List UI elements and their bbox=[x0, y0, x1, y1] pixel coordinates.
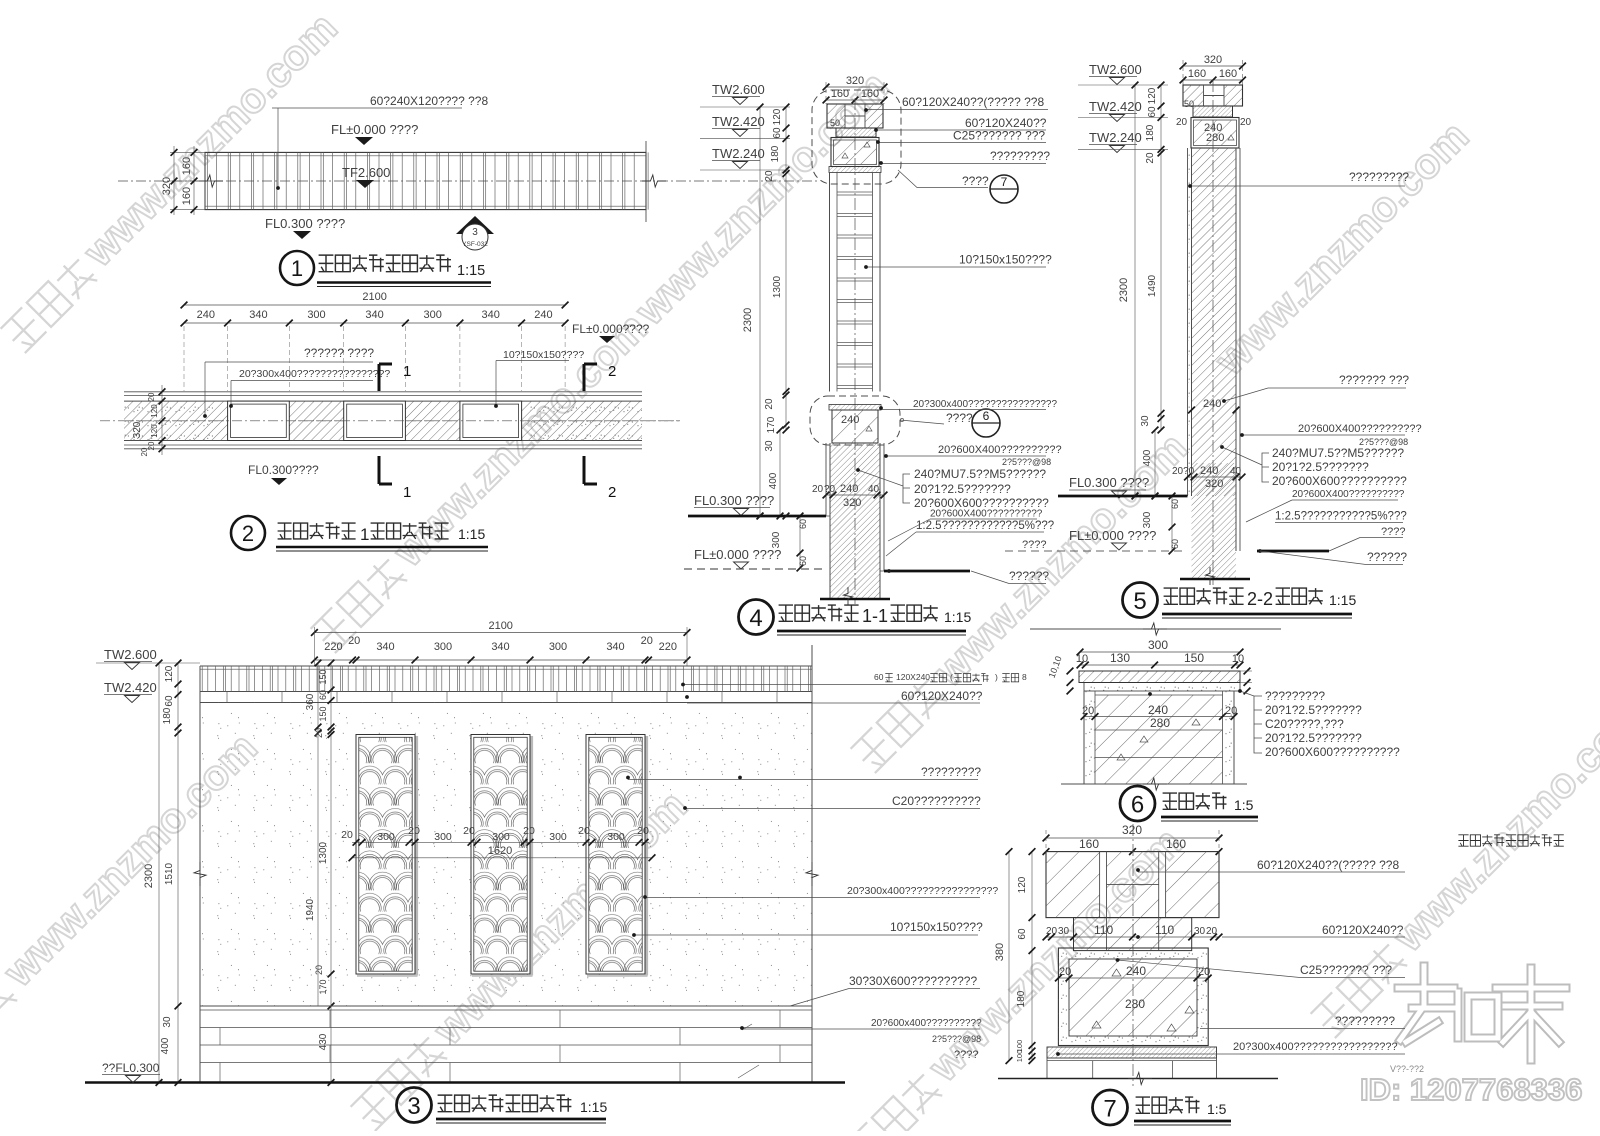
svg-text:20?600X600??????????: 20?600X600?????????? bbox=[1265, 745, 1400, 759]
ground line bbox=[85, 1081, 845, 1084]
svg-text:????: ???? bbox=[1381, 526, 1405, 538]
view 7: footing detail 1:5 bbox=[994, 823, 1424, 1125]
svg-text:300: 300 bbox=[434, 641, 452, 653]
svg-text:30?30X600??????????: 30?30X600?????????? bbox=[849, 974, 977, 988]
svg-text:1: 1 bbox=[403, 363, 411, 380]
C25 footing block bbox=[1058, 948, 1208, 1046]
svg-text:20?1?2.5???????: 20?1?2.5??????? bbox=[1272, 460, 1369, 474]
svg-text:160: 160 bbox=[181, 187, 193, 205]
svg-text:320: 320 bbox=[132, 421, 143, 438]
svg-text:240: 240 bbox=[840, 483, 858, 495]
svg-text:2300: 2300 bbox=[1118, 278, 1130, 302]
svg-text:(: ( bbox=[950, 672, 953, 682]
svg-text:300: 300 bbox=[377, 831, 395, 843]
svg-text:2-2: 2-2 bbox=[1247, 589, 1273, 609]
svg-text:20: 20 bbox=[463, 825, 475, 837]
svg-text:FL±0.000 ????: FL±0.000 ???? bbox=[1069, 528, 1156, 543]
svg-text:1:15: 1:15 bbox=[580, 1099, 607, 1115]
svg-text:FL±0.000????: FL±0.000???? bbox=[572, 322, 650, 336]
left dim column 380 and 120/60/180/100 bbox=[1008, 852, 1010, 1061]
svg-text:ID: 1207768336: ID: 1207768336 bbox=[1360, 1072, 1582, 1107]
svg-text:1:15: 1:15 bbox=[458, 526, 485, 542]
svg-text:10: 10 bbox=[1232, 653, 1244, 665]
title 7 text bbox=[1136, 1097, 1150, 1113]
svg-text:20?300x400?????????????????: 20?300x400????????????????? bbox=[1233, 1041, 1398, 1053]
svg-text:20?600X400??????????: 20?600X400?????????? bbox=[930, 509, 1043, 520]
svg-text:????: ???? bbox=[1022, 539, 1046, 551]
svg-text:1:15: 1:15 bbox=[944, 609, 971, 625]
svg-text:FL0.300 ????: FL0.300 ???? bbox=[265, 216, 345, 231]
svg-text:TW2.600: TW2.600 bbox=[712, 82, 765, 97]
svg-text:1:2.5???????????5%???: 1:2.5???????????5%??? bbox=[1275, 511, 1407, 523]
foundation bottom edge bbox=[820, 598, 890, 600]
svg-text:C25??????? ???: C25??????? ??? bbox=[1300, 963, 1392, 977]
cap stone block bbox=[827, 104, 883, 128]
wall plan band outline bbox=[205, 152, 646, 209]
cap stone block bbox=[1183, 85, 1243, 106]
vertical dim column 2300 bbox=[759, 107, 761, 516]
svg-text:1300: 1300 bbox=[318, 841, 329, 864]
break symbol right bbox=[642, 175, 666, 187]
coping slab hatched bbox=[1079, 671, 1240, 683]
lattice box openings bbox=[228, 401, 290, 440]
view 5: section 2-2 bbox=[1058, 54, 1422, 618]
svg-text:1490: 1490 bbox=[1147, 274, 1158, 297]
bottom reference line bbox=[1061, 783, 1247, 785]
panel dim row 20/300/20 and 300 gaps bbox=[352, 841, 649, 843]
render strips both sides bbox=[1187, 148, 1189, 496]
svg-text:V??-??2: V??-??2 bbox=[1390, 1064, 1424, 1074]
svg-text:240?MU7.5??M5??????: 240?MU7.5??M5?????? bbox=[914, 467, 1046, 481]
svg-text:8: 8 bbox=[1022, 672, 1027, 682]
callout 7 leader bbox=[898, 170, 988, 188]
detail callout boundary top (dashed) bbox=[812, 90, 901, 184]
lower dim segments bbox=[785, 392, 787, 431]
dim 160 160 over cap bbox=[826, 99, 884, 101]
svg-text:20: 20 bbox=[314, 965, 324, 975]
svg-text:20?300x400????????????????: 20?300x400???????????????? bbox=[239, 368, 390, 380]
svg-text:280: 280 bbox=[1125, 997, 1145, 1011]
svg-text:): ) bbox=[995, 672, 998, 682]
note right: detail sheet name bbox=[1458, 835, 1468, 846]
base slab hatched bbox=[1047, 1047, 1217, 1058]
title 6 bubble bbox=[1120, 786, 1155, 821]
svg-text:20?1?2.5???????: 20?1?2.5??????? bbox=[1265, 703, 1362, 717]
view 3: elevation bbox=[85, 620, 1027, 1123]
svg-text:2300: 2300 bbox=[143, 864, 155, 888]
svg-text:?????????: ????????? bbox=[1335, 1014, 1395, 1028]
title 6 text bbox=[1163, 793, 1177, 809]
vertical dim 2300 column bbox=[1134, 85, 1136, 496]
vertical dim segments column bbox=[1160, 85, 1162, 420]
svg-text:150: 150 bbox=[318, 669, 328, 684]
brick on edge course bbox=[1193, 106, 1233, 117]
svg-text:220: 220 bbox=[659, 641, 677, 653]
title 2 bubble bbox=[231, 516, 265, 550]
svg-text:280: 280 bbox=[1150, 716, 1170, 730]
svg-text:20?300x400????????????????: 20?300x400???????????????? bbox=[847, 885, 998, 897]
svg-text:20?600X400??????????: 20?600X400?????????? bbox=[1298, 423, 1422, 435]
scallop lattice panels bbox=[356, 735, 415, 975]
svg-text:??????: ?????? bbox=[1367, 550, 1407, 564]
column centreline bbox=[854, 98, 856, 604]
svg-text:TW2.420: TW2.420 bbox=[1089, 99, 1142, 114]
left small dims of plan band bbox=[161, 385, 163, 455]
svg-text:30: 30 bbox=[764, 440, 775, 452]
svg-text:2?5???@98: 2?5???@98 bbox=[932, 1034, 981, 1044]
svg-text:180: 180 bbox=[1145, 124, 1156, 141]
svg-text:1: 1 bbox=[403, 484, 411, 501]
svg-text:60: 60 bbox=[798, 519, 808, 529]
watermark logo bottom right bbox=[1398, 966, 1458, 1042]
brick on edge course bbox=[836, 128, 876, 137]
svg-text:20?600X400??????????: 20?600X400?????????? bbox=[938, 444, 1062, 456]
svg-text:60: 60 bbox=[1017, 928, 1028, 940]
svg-text:60?240X120???? ??8: 60?240X120???? ??8 bbox=[370, 94, 488, 108]
svg-text:60: 60 bbox=[1170, 499, 1180, 509]
svg-text:TW2.240: TW2.240 bbox=[1089, 130, 1142, 145]
svg-text:1: 1 bbox=[291, 256, 303, 281]
svg-text:160: 160 bbox=[1219, 68, 1237, 80]
foundation bottom edge bbox=[1180, 578, 1250, 580]
svg-text:20: 20 bbox=[314, 728, 324, 738]
svg-text:120: 120 bbox=[1147, 87, 1158, 104]
svg-text:340: 340 bbox=[606, 641, 624, 653]
svg-text:1940: 1940 bbox=[305, 898, 316, 921]
svg-text:60?120X240??(????? ??8: 60?120X240??(????? ??8 bbox=[1257, 858, 1399, 872]
ground line bbox=[998, 1078, 1278, 1080]
svg-text:160: 160 bbox=[1166, 837, 1186, 851]
svg-text:2300: 2300 bbox=[742, 308, 754, 332]
dim chain 220/20/340/300/340/300/340/20/220 bbox=[314, 659, 687, 661]
section marker 3 YSF-032 bbox=[456, 216, 494, 234]
svg-text:2: 2 bbox=[608, 363, 616, 380]
svg-text:60?120X240??: 60?120X240?? bbox=[901, 689, 983, 703]
svg-text:2100: 2100 bbox=[488, 620, 512, 632]
svg-text:TW2.420: TW2.420 bbox=[712, 114, 765, 129]
pavement heavy line right FL+-0.000 bbox=[1257, 550, 1329, 553]
dim 1620 line bbox=[352, 857, 652, 859]
brick band top course (vertical bricks) bbox=[200, 665, 812, 667]
svg-text:C25??????? ???: C25??????? ??? bbox=[953, 129, 1045, 143]
mortar bed under coping bbox=[1084, 683, 1240, 692]
svg-text:170: 170 bbox=[766, 416, 777, 433]
svg-text:110: 110 bbox=[1094, 923, 1113, 937]
svg-text:20?0: 20?0 bbox=[1172, 466, 1195, 477]
svg-text:?????????: ????????? bbox=[990, 149, 1050, 163]
plan band outer lines bbox=[124, 391, 642, 393]
mortar bed above brick block bbox=[829, 405, 881, 411]
extension dashed lines to plan band bbox=[183, 326, 185, 391]
svg-text:400: 400 bbox=[1142, 449, 1153, 466]
svg-text:30: 30 bbox=[1140, 415, 1151, 427]
title 5 bubble bbox=[1123, 583, 1158, 618]
svg-text:60: 60 bbox=[164, 695, 175, 707]
240 brick block bbox=[832, 410, 878, 443]
svg-text:240: 240 bbox=[1148, 703, 1168, 717]
svg-text:1: 1 bbox=[360, 525, 369, 544]
svg-text:??FL0.300: ??FL0.300 bbox=[102, 1061, 160, 1075]
pavement line right at FL+-0.000 bbox=[884, 570, 970, 573]
svg-text:180: 180 bbox=[1016, 990, 1027, 1007]
svg-text:240: 240 bbox=[1126, 964, 1146, 978]
foundation side render strips bbox=[825, 443, 827, 516]
svg-text:30: 30 bbox=[1194, 926, 1206, 937]
svg-text:6: 6 bbox=[1131, 792, 1144, 819]
svg-text:240: 240 bbox=[1203, 398, 1221, 410]
svg-text:1:15: 1:15 bbox=[457, 263, 485, 279]
svg-text:3: 3 bbox=[407, 1093, 420, 1120]
svg-text:2?5???@98: 2?5???@98 bbox=[1002, 457, 1051, 467]
svg-text:300: 300 bbox=[549, 831, 567, 843]
dim 160 160 bbox=[1183, 79, 1243, 81]
svg-text:10: 10 bbox=[1076, 653, 1088, 665]
section cut mark 2 top bbox=[584, 364, 597, 391]
svg-text:320: 320 bbox=[161, 177, 173, 195]
svg-text:5: 5 bbox=[1133, 588, 1146, 615]
svg-text:?????????: ????????? bbox=[921, 765, 981, 779]
svg-text:300: 300 bbox=[607, 831, 625, 843]
steel lattice column rails bbox=[829, 173, 831, 392]
svg-text:FL±0.000 ????: FL±0.000 ???? bbox=[694, 547, 781, 562]
title 2 text bbox=[278, 523, 292, 539]
svg-text:FL0.300????: FL0.300???? bbox=[248, 463, 319, 477]
svg-text:180: 180 bbox=[770, 145, 781, 162]
svg-text:20?300x400????????????????: 20?300x400???????????????? bbox=[913, 399, 1057, 410]
svg-text:300: 300 bbox=[1148, 638, 1168, 652]
svg-text:20?1?2.5???????: 20?1?2.5??????? bbox=[914, 482, 1011, 496]
svg-text:160: 160 bbox=[1188, 68, 1206, 80]
dimension 320/160/160 left of plan bbox=[170, 151, 205, 153]
view 1: wall plan strip bbox=[118, 94, 818, 287]
svg-text:320: 320 bbox=[846, 75, 864, 87]
C25 capping beam bbox=[831, 138, 879, 167]
base blocks below slab bbox=[1046, 1058, 1048, 1079]
svg-text:180: 180 bbox=[162, 707, 173, 724]
svg-text:10?150x150????: 10?150x150???? bbox=[959, 253, 1052, 267]
title 3 text bbox=[438, 1095, 453, 1112]
svg-text:340: 340 bbox=[365, 309, 383, 321]
foundation wall hatched bbox=[830, 443, 880, 599]
svg-text:10?150x150????: 10?150x150???? bbox=[890, 920, 983, 934]
svg-text:20: 20 bbox=[812, 484, 824, 495]
svg-text:20: 20 bbox=[637, 825, 649, 837]
svg-text:120: 120 bbox=[150, 424, 159, 438]
svg-text:430: 430 bbox=[318, 1033, 329, 1050]
svg-text:1300: 1300 bbox=[772, 275, 783, 298]
svg-text:2: 2 bbox=[608, 484, 616, 501]
svg-text:60: 60 bbox=[874, 672, 884, 682]
svg-text:1510: 1510 bbox=[164, 862, 175, 885]
svg-text:110: 110 bbox=[1155, 923, 1174, 937]
dim chain 2100 overall top bbox=[314, 632, 687, 634]
svg-text:20: 20 bbox=[140, 447, 149, 456]
svg-text:300: 300 bbox=[771, 531, 782, 548]
svg-text:20?600x400??????????: 20?600x400?????????? bbox=[871, 1018, 982, 1029]
brick band second course bbox=[200, 702, 812, 704]
svg-text:300: 300 bbox=[307, 309, 325, 321]
callout 6 leader bbox=[900, 420, 944, 424]
base stone bands bbox=[200, 1005, 812, 1007]
svg-text:20: 20 bbox=[764, 170, 775, 182]
svg-text:??????? ???: ??????? ??? bbox=[1339, 373, 1409, 387]
svg-text:1:5: 1:5 bbox=[1207, 1101, 1227, 1117]
svg-text:2100: 2100 bbox=[362, 291, 386, 303]
svg-text:2: 2 bbox=[242, 521, 254, 546]
svg-text:4: 4 bbox=[749, 605, 762, 632]
svg-text:20: 20 bbox=[578, 825, 590, 837]
svg-text:150: 150 bbox=[1184, 651, 1204, 665]
svg-text:60: 60 bbox=[1147, 106, 1158, 118]
dim chain 240/340/300/340/300/340/240 bbox=[184, 322, 565, 324]
wall top reference line bbox=[1030, 628, 1281, 630]
svg-text:YSF-032: YSF-032 bbox=[462, 241, 488, 248]
foundation below FL0.300 bbox=[1192, 463, 1237, 579]
svg-text:40: 40 bbox=[1230, 466, 1242, 477]
svg-text:240: 240 bbox=[534, 309, 552, 321]
title 7 bubble bbox=[1093, 1090, 1128, 1125]
plan band brick joints bbox=[205, 152, 648, 209]
svg-text:20: 20 bbox=[147, 392, 156, 401]
svg-text:??????: ?????? bbox=[1009, 569, 1049, 583]
svg-text:1620: 1620 bbox=[488, 845, 512, 857]
centreline bbox=[1132, 824, 1134, 1086]
svg-text:300: 300 bbox=[424, 309, 442, 321]
svg-text:300: 300 bbox=[1142, 511, 1153, 528]
svg-text:240: 240 bbox=[1200, 465, 1218, 477]
plan band inner edge lines bbox=[205, 155, 646, 157]
svg-text:3: 3 bbox=[472, 227, 478, 238]
section cut mark 1 top bbox=[379, 364, 392, 391]
svg-text:120: 120 bbox=[772, 108, 783, 125]
wall block below bbox=[1083, 691, 1085, 784]
svg-text:380: 380 bbox=[994, 943, 1006, 961]
section cut mark 2 bottom bbox=[584, 456, 597, 484]
svg-text:1-1: 1-1 bbox=[862, 606, 888, 626]
svg-text:TW2.420: TW2.420 bbox=[104, 680, 157, 695]
view 6: coping detail 1:5 bbox=[1030, 623, 1400, 821]
svg-text:????: ???? bbox=[954, 1049, 978, 1061]
svg-text:30: 30 bbox=[162, 1016, 173, 1028]
svg-text:30: 30 bbox=[1058, 926, 1070, 937]
title 4 text bbox=[779, 605, 793, 621]
svg-text:20: 20 bbox=[408, 825, 420, 837]
svg-text:160: 160 bbox=[181, 157, 193, 175]
svg-text:20: 20 bbox=[348, 635, 360, 647]
svg-text:20: 20 bbox=[641, 635, 653, 647]
svg-text:400: 400 bbox=[768, 472, 779, 489]
stucco wall face stippled bbox=[200, 703, 812, 1007]
pavement heavy line FL0.300 bbox=[1058, 495, 1188, 498]
svg-text:20?1?2.5???????: 20?1?2.5??????? bbox=[1265, 731, 1362, 745]
svg-text:10?150x150????: 10?150x150???? bbox=[503, 349, 584, 361]
C25 capping beam bbox=[1191, 118, 1239, 149]
svg-text:TW2.240: TW2.240 bbox=[712, 146, 765, 161]
svg-text:FL0.300 ????: FL0.300 ???? bbox=[1069, 475, 1149, 490]
svg-text:C20??????????: C20?????????? bbox=[892, 794, 981, 808]
watermark diagonal chains bbox=[0, 4, 346, 356]
svg-text:20: 20 bbox=[1082, 705, 1094, 717]
callout 6 bubble bbox=[972, 409, 1000, 437]
svg-text:????: ???? bbox=[946, 411, 973, 425]
svg-text:300: 300 bbox=[492, 831, 510, 843]
svg-text:1:15: 1:15 bbox=[1329, 592, 1356, 608]
svg-text:20: 20 bbox=[341, 829, 353, 841]
svg-text:FL0.300 ????: FL0.300 ???? bbox=[694, 493, 774, 508]
plan band centreline over boxes bbox=[124, 420, 680, 422]
svg-text:20: 20 bbox=[1145, 152, 1156, 164]
svg-text:1:5: 1:5 bbox=[1234, 797, 1254, 813]
svg-text:300: 300 bbox=[434, 831, 452, 843]
brick wall shaft hatched bbox=[1192, 148, 1237, 496]
svg-text:300: 300 bbox=[549, 641, 567, 653]
callout 7 bubble bbox=[990, 175, 1018, 203]
svg-text:7: 7 bbox=[1001, 175, 1008, 189]
brick on edge course 60 bbox=[1074, 918, 1192, 951]
plan band hatched wall segments bbox=[124, 401, 228, 440]
lower dim segments bbox=[1160, 413, 1162, 430]
svg-text:?????????: ????????? bbox=[1265, 689, 1325, 703]
svg-text:C20?????,???: C20?????,??? bbox=[1265, 717, 1344, 731]
svg-text:120X240: 120X240 bbox=[896, 672, 930, 682]
svg-text:?????? ????: ?????? ???? bbox=[304, 346, 374, 360]
svg-text:20: 20 bbox=[523, 825, 535, 837]
svg-text:7: 7 bbox=[1103, 1096, 1116, 1123]
svg-text:1:2.5????????????5%???: 1:2.5????????????5%??? bbox=[916, 520, 1054, 532]
bracket for wall build-up labels bbox=[903, 474, 910, 503]
svg-text:60: 60 bbox=[798, 556, 808, 566]
svg-text:340: 340 bbox=[249, 309, 267, 321]
bracket build-up labels bbox=[1262, 453, 1269, 482]
svg-text:60: 60 bbox=[772, 127, 783, 139]
detail callout boundary bottom (dashed) bbox=[810, 396, 900, 445]
svg-text:130: 130 bbox=[1110, 651, 1130, 665]
wall left and right edges bbox=[199, 666, 201, 1083]
svg-text:240?MU7.5??M5??????: 240?MU7.5??M5?????? bbox=[1272, 446, 1404, 460]
left dim columns bbox=[158, 663, 160, 1083]
wall centreline bbox=[1212, 80, 1214, 585]
dim 320 over cap bbox=[1183, 65, 1243, 67]
mortar bed 20 bbox=[829, 167, 881, 173]
svg-text:60: 60 bbox=[1170, 539, 1180, 549]
svg-text:6: 6 bbox=[983, 409, 990, 423]
svg-text:50: 50 bbox=[830, 118, 840, 128]
svg-text:170: 170 bbox=[318, 979, 328, 994]
svg-text:20?600X600??????????: 20?600X600?????????? bbox=[1272, 474, 1407, 488]
svg-text:120: 120 bbox=[150, 404, 159, 418]
concrete speckle overlay ends bbox=[124, 401, 216, 440]
svg-text:320: 320 bbox=[843, 497, 861, 509]
svg-text:60?120X240??(????? ??8: 60?120X240??(????? ??8 bbox=[902, 95, 1044, 109]
section cut mark 1 bottom bbox=[379, 456, 392, 484]
dim 320 and 160/160 bbox=[1046, 837, 1219, 839]
svg-text:360: 360 bbox=[305, 693, 316, 710]
title 1 bubble bbox=[280, 251, 314, 285]
svg-text:120: 120 bbox=[164, 665, 175, 682]
svg-text:60?120X240??: 60?120X240?? bbox=[1322, 923, 1404, 937]
inner dim columns 360/150/60/150/20 and 1300/1940 bbox=[317, 663, 319, 745]
svg-text:20?600X400??????????: 20?600X400?????????? bbox=[1292, 489, 1405, 500]
svg-text:?????????: ????????? bbox=[1349, 170, 1409, 184]
svg-text:320: 320 bbox=[1204, 54, 1222, 66]
svg-text:20: 20 bbox=[1240, 117, 1252, 128]
svg-text:TF2.600: TF2.600 bbox=[342, 165, 390, 180]
break symbol left bbox=[199, 175, 223, 187]
svg-text:320: 320 bbox=[1122, 823, 1142, 837]
plan band centreline bbox=[100, 420, 680, 422]
plan band centreline bbox=[118, 180, 818, 182]
title 4 bubble bbox=[739, 600, 774, 635]
